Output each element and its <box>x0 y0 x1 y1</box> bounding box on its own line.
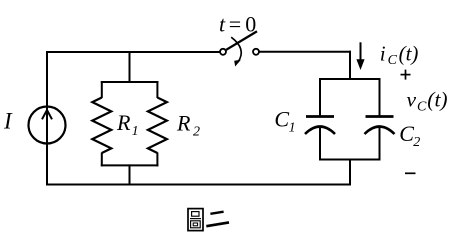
capacitor C2 <box>365 78 395 161</box>
svg-text:I: I <box>3 108 13 133</box>
switch terminal left <box>220 49 226 55</box>
svg-text:C: C <box>388 53 398 68</box>
capacitor C1 <box>305 78 335 161</box>
label iC(t) <box>380 41 419 68</box>
svg-text:i: i <box>380 41 386 65</box>
wire: left vertical rail <box>46 51 48 186</box>
switch terminal right <box>253 49 259 55</box>
svg-text:=: = <box>229 11 241 36</box>
wire: capacitor bank bottom rail <box>319 159 381 161</box>
svg-text:1: 1 <box>289 121 296 136</box>
svg-text:v: v <box>407 88 417 112</box>
wire: resistor bank top stem <box>129 52 131 83</box>
current arrow iC(t) <box>356 42 364 70</box>
switch blade <box>226 31 257 50</box>
wire: resistor bank bottom rail <box>101 164 159 166</box>
label t = 0 <box>219 11 256 36</box>
label R2 <box>176 111 200 140</box>
svg-text:C: C <box>274 106 289 131</box>
current source I (circle with up arrow) <box>29 107 66 144</box>
wire: resistor bank bottom stem <box>129 164 131 184</box>
svg-text:2: 2 <box>193 124 200 139</box>
svg-text:R: R <box>116 110 131 135</box>
svg-text:1: 1 <box>132 124 139 139</box>
svg-text:C: C <box>417 100 427 115</box>
resistor R1 <box>92 81 111 166</box>
label + polarity <box>401 70 411 80</box>
svg-text:C: C <box>399 121 414 146</box>
svg-text:R: R <box>176 111 191 136</box>
svg-text:t: t <box>219 11 226 36</box>
resistor R2 <box>148 81 167 166</box>
wire: top-right rail from switch to capacitor corner <box>259 51 351 53</box>
label R1 <box>116 110 139 139</box>
label vC(t) <box>407 88 448 115</box>
label - polarity <box>405 172 416 174</box>
label C1 <box>274 106 295 135</box>
caption: character 圖 <box>188 209 203 231</box>
svg-text:(t): (t) <box>399 41 419 65</box>
label C2 <box>399 121 420 150</box>
wire: capacitor bank bottom stem <box>349 159 351 186</box>
wire: top-left rail from left corner to switch left terminal <box>46 51 220 53</box>
wire: capacitor bank top rail <box>319 78 381 80</box>
svg-text:(t): (t) <box>427 88 447 112</box>
wire: capacitor bank feed stem <box>349 51 351 80</box>
caption: character 二 <box>206 212 229 227</box>
wire: bottom rail <box>46 184 351 186</box>
svg-text:2: 2 <box>413 135 420 150</box>
svg-text:0: 0 <box>245 12 256 37</box>
wire: resistor bank top rail <box>101 81 159 83</box>
switch closing arrow <box>231 37 241 66</box>
